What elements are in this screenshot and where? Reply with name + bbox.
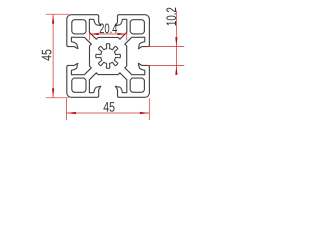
label 20.4 top (100, 23, 118, 33)
arrow 45-bottom left (67, 112, 76, 114)
dim 20.4 line (89, 33, 126, 35)
dim 45 left ext bottom (46, 97, 69, 99)
label 45 left (rotated) (42, 50, 52, 61)
arrow 45-bottom right (140, 112, 149, 114)
dim 45 left ext top (46, 13, 69, 15)
arrow 10.2 lower (175, 66, 177, 75)
arrow 20.4 right (117, 33, 126, 35)
corner hole BR (130, 78, 144, 92)
center gear bore (96, 44, 121, 69)
dim 10.2 line (175, 11, 177, 76)
dim 20.4 ext right (126, 32, 128, 40)
arrow 20.4 left (90, 33, 99, 35)
arrow 45-left top (52, 14, 54, 23)
dim 45 bottom ext left (66, 98, 68, 120)
label 10.2 right (rotated) (166, 8, 176, 26)
profile outline (67, 15, 150, 98)
corner hole TR (130, 20, 144, 34)
corner hole TL (72, 20, 86, 34)
dim 10.2 ext lower (147, 64, 185, 66)
arrow 45-left bottom (52, 88, 54, 97)
dim 20.4 ext left (88, 32, 90, 40)
dim 45 bottom ext right (148, 98, 150, 120)
corner hole BL (72, 78, 86, 92)
dim 45 left line (52, 14, 54, 98)
dim 45 bottom line (67, 112, 150, 114)
arrow 10.2 upper (175, 37, 177, 46)
label 45 bottom (103, 102, 114, 112)
dim 10.2 ext upper (147, 46, 185, 48)
